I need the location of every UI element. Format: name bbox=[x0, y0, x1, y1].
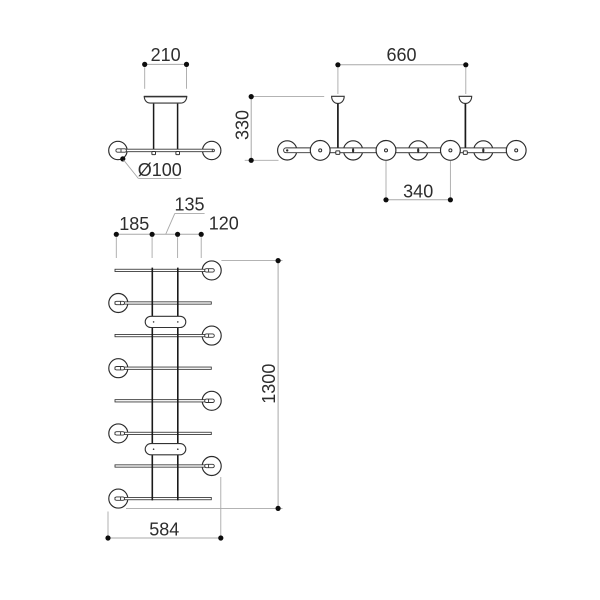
canopy capsule 2 bbox=[145, 444, 186, 455]
dim 330 top ext bbox=[251, 96, 324, 98]
bar segment 4 bbox=[460, 148, 507, 153]
top dims line bbox=[116, 233, 201, 235]
dim 1300 dot bottom bbox=[276, 506, 281, 511]
slot right sphere bbox=[211, 149, 213, 152]
leader dot diameter bbox=[120, 156, 125, 161]
dim 340 ext right bbox=[449, 161, 451, 198]
svg-text:584: 584 bbox=[149, 519, 179, 539]
svg-text:Ø100: Ø100 bbox=[138, 160, 182, 180]
connector square 1 bbox=[336, 151, 340, 155]
top dims dot 4 bbox=[199, 232, 204, 237]
canopy front 1 bbox=[332, 96, 345, 103]
top sphere arm1 right bbox=[202, 261, 221, 280]
dim 1300 line bbox=[277, 261, 279, 509]
back sphere 1 bbox=[278, 141, 297, 160]
arm bar 1 bbox=[115, 269, 211, 271]
dim 584 dot right bbox=[218, 535, 223, 540]
arm bar 2 bbox=[115, 302, 211, 304]
dim 660 dot right bbox=[463, 62, 468, 67]
dim 135 leader bbox=[166, 213, 205, 234]
front sphere 8 bbox=[506, 141, 526, 161]
top sphere arm2 left bbox=[109, 294, 128, 313]
dim 340 line bbox=[386, 199, 450, 201]
dim 584 line bbox=[108, 537, 221, 539]
canopy rim side view bbox=[144, 96, 187, 98]
bar side view bbox=[116, 149, 214, 152]
ext below dot2 bbox=[151, 237, 153, 258]
dim 660 line bbox=[338, 64, 466, 66]
leader line diameter bbox=[124, 160, 182, 178]
rail left bbox=[151, 268, 153, 501]
dim 340 dot left bbox=[383, 197, 388, 202]
center mark sphere 5 bbox=[417, 148, 419, 152]
dim 210 ext right bbox=[186, 67, 188, 89]
top sphere arm5 right bbox=[202, 391, 221, 410]
dim 210 ext left bbox=[144, 67, 146, 89]
dim 340 ext left bbox=[385, 161, 387, 198]
slot socket arm3 bbox=[205, 334, 215, 337]
dim 660 ext right bbox=[465, 68, 467, 94]
top sphere arm7 right bbox=[202, 457, 221, 476]
slot socket arm8 bbox=[115, 497, 125, 500]
top sphere arm8 left bbox=[109, 489, 128, 508]
front sphere 4 bbox=[376, 141, 396, 161]
ext below dot4 bbox=[200, 237, 202, 258]
dim 1300 dot top bbox=[276, 258, 281, 263]
svg-text:1300: 1300 bbox=[259, 364, 279, 404]
dim 210 dot left bbox=[142, 62, 147, 67]
front sphere 6 bbox=[441, 141, 461, 161]
top sphere arm4 left bbox=[109, 359, 128, 378]
top dims dot 2 bbox=[150, 232, 155, 237]
slot socket arm7 bbox=[205, 464, 215, 467]
back sphere 7 bbox=[474, 141, 493, 160]
svg-text:660: 660 bbox=[386, 45, 416, 65]
dim 330 bottom ext bbox=[245, 159, 279, 161]
arm bar 4 bbox=[115, 367, 211, 369]
dim 340 dot right bbox=[448, 197, 453, 202]
arm bar 6 bbox=[115, 432, 211, 434]
arm bar 3 bbox=[115, 334, 211, 336]
rod front 1 bbox=[337, 104, 339, 149]
center mark sphere 7 bbox=[482, 148, 484, 152]
ext below dot1 bbox=[115, 237, 117, 258]
dim 1300 top ext bbox=[221, 260, 282, 262]
dim 1300 bottom ext bbox=[126, 507, 283, 509]
dim 330 line bbox=[250, 97, 252, 161]
dim 210 line bbox=[145, 63, 187, 65]
slot socket arm1 bbox=[205, 269, 215, 272]
canopy capsule 1 bbox=[145, 316, 186, 327]
dim 584 ext left bbox=[107, 512, 109, 541]
rod foot right bbox=[176, 152, 180, 155]
svg-text:185: 185 bbox=[119, 214, 149, 234]
dim 584 dot left bbox=[105, 535, 110, 540]
dim 660 ext left bbox=[337, 68, 339, 94]
arm bar 5 bbox=[115, 400, 211, 402]
center mark sphere 3 bbox=[352, 148, 354, 152]
front sphere 2 bbox=[310, 141, 330, 161]
top dims dot 3 bbox=[175, 232, 180, 237]
rod right side view bbox=[177, 104, 179, 150]
arm bar 7 bbox=[115, 465, 211, 467]
slot socket arm6 bbox=[115, 432, 125, 435]
top sphere arm3 right bbox=[202, 326, 221, 345]
bar segment 2 bbox=[330, 148, 377, 153]
top dims dot 1 bbox=[114, 232, 119, 237]
rod front 2 bbox=[464, 104, 466, 149]
dim 330 dot top bbox=[249, 94, 254, 99]
bar segment 3 bbox=[395, 148, 441, 153]
sphere left side view bbox=[109, 141, 127, 159]
center mark sphere 1 bbox=[286, 149, 288, 151]
dim 660 dot left bbox=[335, 62, 340, 67]
svg-text:120: 120 bbox=[209, 214, 239, 234]
svg-text:330: 330 bbox=[232, 110, 252, 140]
sphere right side view bbox=[203, 141, 221, 159]
back sphere 5 bbox=[409, 141, 428, 160]
top sphere arm6 left bbox=[109, 424, 128, 443]
slot socket arm5 bbox=[205, 399, 215, 402]
arm bar 8 bbox=[115, 497, 211, 499]
svg-text:210: 210 bbox=[151, 45, 181, 65]
connector square 2 bbox=[463, 151, 467, 155]
slot socket arm2 bbox=[115, 301, 125, 304]
rail right bbox=[177, 268, 179, 501]
rod foot left bbox=[152, 152, 156, 155]
bar segment 1 bbox=[284, 148, 311, 153]
svg-text:340: 340 bbox=[403, 182, 433, 202]
dim 330 dot bottom bbox=[249, 158, 254, 163]
svg-text:135: 135 bbox=[174, 194, 204, 214]
back sphere 3 bbox=[344, 141, 363, 160]
slot socket arm4 bbox=[115, 367, 125, 370]
ext below dot3 bbox=[177, 237, 179, 258]
canopy side view bbox=[144, 96, 187, 103]
slot left sphere bbox=[116, 149, 127, 152]
dim 584 ext right bbox=[220, 477, 222, 541]
canopy front 2 bbox=[459, 96, 472, 103]
dim 210 dot right bbox=[184, 62, 189, 67]
rod left side view bbox=[153, 104, 155, 150]
